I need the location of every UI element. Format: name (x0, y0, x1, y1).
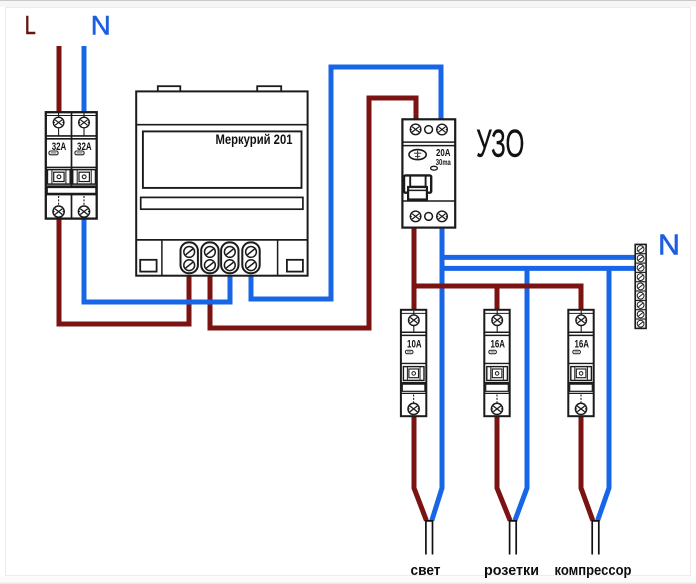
meter top tab right (257, 86, 281, 92)
meter terminal 3 (221, 242, 238, 273)
wire N UZO output to N bus-bar (442, 255, 636, 260)
wire L breaker 16A out to rozetki load (497, 414, 510, 521)
wire N input top to breaker QF1 (82, 46, 87, 114)
meter terminal section (137, 239, 308, 241)
svg-text:свет: свет (411, 562, 441, 579)
wire N meter terminal 4 to UZO top-right (251, 67, 441, 299)
meter terminal 2 (201, 242, 218, 273)
wire N drop to rozetki load (515, 268, 527, 521)
svg-text:компрессор: компрессор (555, 562, 632, 579)
indicator window pole1 (49, 151, 58, 155)
meter top tab left (158, 86, 181, 92)
wire L breaker 16A out to kompressor load (581, 414, 593, 521)
svg-text:30ma: 30ma (436, 158, 451, 167)
wire L breaker QF1 out to meter terminal 1 (59, 217, 189, 324)
circuit breaker SF1 10A (svet) (401, 310, 426, 416)
svg-text:10A: 10A (407, 339, 422, 351)
svg-text:Меркурий 201: Меркурий 201 (216, 132, 293, 147)
indicator window pole2 (75, 151, 84, 155)
crossbar tie (47, 186, 96, 193)
meter DIN clip left (140, 260, 156, 272)
toggle switch pole2 (73, 170, 96, 185)
meter body (136, 91, 307, 275)
circuit breaker SF3 16A (kompressor) (568, 310, 593, 416)
svg-text:N: N (91, 10, 111, 40)
meter display panel (143, 131, 302, 188)
UZO test window (431, 166, 438, 170)
UZO terminal screw bottom-left (410, 211, 421, 222)
wire L meter terminal 2 to UZO top-left (210, 98, 416, 328)
UZO terminal screw top-left (410, 124, 421, 135)
meter terminal 1 (181, 242, 198, 273)
svg-text:УЗО: УЗО (476, 123, 524, 166)
wire N breaker QF1 out to meter terminal 3 (84, 217, 230, 302)
meter DIN clip right (287, 260, 303, 272)
wire L UZO output and bus to breakers (412, 226, 417, 312)
wire N bus-bar distribution line (442, 266, 636, 271)
load cable kompressor (592, 521, 599, 555)
terminal screw QF1 pole1 bottom (58, 196, 60, 206)
wire L bus horizontal (412, 286, 582, 312)
load cable svet (426, 521, 433, 555)
RCD UZO 20A 30mA (402, 119, 455, 227)
svg-text:16A: 16A (574, 339, 589, 351)
terminal screw QF1 pole2 top (83, 113, 85, 136)
electric meter Mercury 201 (136, 86, 307, 276)
svg-text:N: N (658, 229, 680, 261)
wire L input top to breaker QF1 (57, 46, 62, 114)
UZO neutral hole bottom (425, 213, 433, 221)
page top hairline (0, 0, 696, 7)
circuit breaker SF2 16A (rozetki) (484, 310, 509, 416)
wire N drop to kompressor load (598, 268, 609, 521)
UZO neutral hole top (425, 126, 433, 134)
load cable rozetki (510, 521, 517, 555)
meter terminal 4 (242, 242, 259, 273)
meter seal band (141, 197, 303, 209)
svg-text:розетки: розетки (484, 562, 539, 579)
UZO terminal screw bottom-right (437, 211, 448, 222)
terminal screw QF1 pole2 bottom (83, 196, 85, 206)
toggle switch pole1 (47, 170, 70, 185)
UZO terminal screw top-right (437, 124, 448, 135)
wire N UZO output down to svet load (432, 226, 442, 521)
svg-text:16A: 16A (490, 339, 505, 351)
terminal screw QF1 pole1 top (58, 113, 60, 136)
page bottom strip (0, 576, 696, 584)
wire L breaker 10A out to svet load (414, 414, 426, 521)
svg-text:L: L (25, 12, 36, 40)
wire L bus drop to breaker 2 (495, 286, 500, 312)
UZO brand oval (409, 150, 426, 160)
UZO toggle switch (404, 175, 431, 192)
circuit breaker QF1 32A double-pole (46, 112, 97, 218)
N bus terminal block (635, 244, 646, 328)
